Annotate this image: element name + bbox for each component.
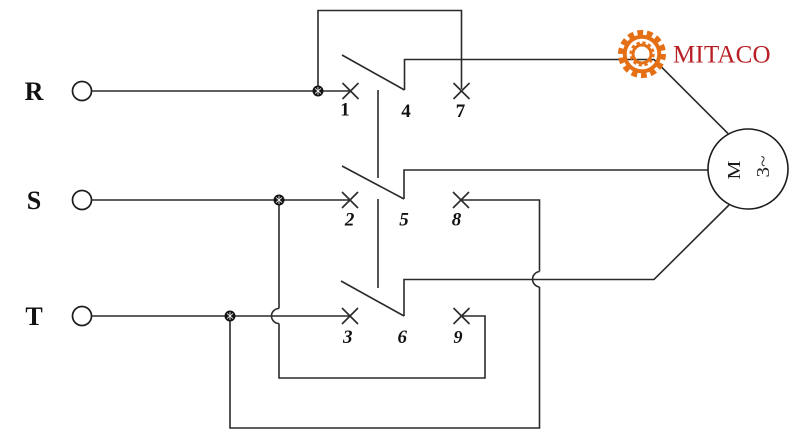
wire blade2 step to motor — [404, 170, 709, 199]
wire top loop R to contact 7 — [318, 11, 462, 92]
contact X mark 7 — [454, 83, 470, 99]
wire blade3 step to motor diagonal — [404, 205, 729, 316]
wire blade1 step to gear diagonal — [405, 60, 729, 134]
switch blade 3 — [341, 281, 404, 316]
terminal circle R — [73, 82, 92, 101]
svg-text:3: 3 — [342, 327, 353, 348]
svg-text:6: 6 — [397, 327, 407, 348]
switch blade 1 — [342, 55, 405, 90]
linkage bar upper segment — [377, 90, 379, 178]
contact X mark 1 — [343, 83, 359, 99]
motor M1 circle — [708, 129, 788, 209]
contact X mark 3 — [342, 308, 358, 324]
svg-text:S: S — [27, 186, 41, 215]
junction node on T wire — [225, 311, 235, 321]
svg-text:4: 4 — [401, 101, 411, 122]
junction node on S wire — [274, 195, 284, 205]
wire T phase horizontal — [92, 315, 351, 317]
terminal circle T — [73, 307, 92, 326]
wire R phase horizontal — [92, 90, 351, 92]
svg-text:T: T — [25, 302, 42, 331]
svg-text:2: 2 — [344, 210, 355, 231]
wire S junction down to node at y378 (hop over T wire) — [279, 200, 485, 378]
svg-text:9: 9 — [454, 327, 463, 347]
svg-text:MITACO: MITACO — [673, 42, 771, 69]
svg-text:R: R — [25, 77, 44, 106]
motor label M 3~ (rotated) — [720, 158, 778, 180]
svg-text:8: 8 — [452, 210, 462, 231]
contact X mark 9 — [454, 308, 470, 324]
wire S phase horizontal — [92, 199, 351, 201]
svg-text:1: 1 — [340, 100, 350, 121]
contact X mark 8 — [453, 192, 469, 208]
switch blade 2 — [342, 166, 404, 199]
terminal circle S — [73, 191, 92, 210]
wire hop of S branch over T wire — [272, 309, 280, 324]
junction node on R wire — [313, 86, 323, 96]
contact X mark 2 — [342, 192, 358, 208]
linkage bar lower segment — [377, 199, 379, 288]
wire contact 8 to T junction loop (hop over motor wire) — [230, 200, 540, 428]
svg-text:7: 7 — [456, 101, 466, 122]
wire hop of 8-T branch over motor wire — [533, 272, 540, 288]
gear logo — [621, 33, 664, 76]
svg-text:5: 5 — [399, 210, 409, 231]
